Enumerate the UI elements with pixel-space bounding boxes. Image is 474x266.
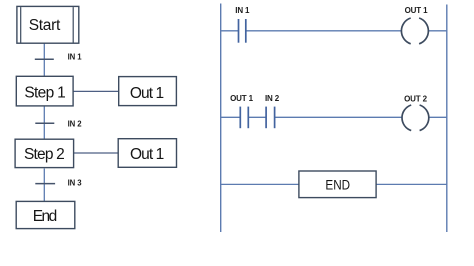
svg-text:IN 3: IN 3 [68,179,83,188]
svg-text:OUT 1: OUT 1 [405,6,429,15]
svg-text:End: End [33,208,58,225]
svg-text:Start: Start [29,17,61,34]
svg-text:IN 1: IN 1 [235,6,250,15]
svg-text:IN 2: IN 2 [68,120,83,129]
svg-text:Step 2: Step 2 [24,146,65,163]
svg-text:OUT 2: OUT 2 [404,94,428,103]
svg-text:END: END [325,176,350,192]
svg-text:Step 1: Step 1 [24,85,65,102]
svg-text:IN 2: IN 2 [265,94,280,103]
svg-text:Out 1: Out 1 [130,146,164,163]
svg-text:OUT 1: OUT 1 [230,94,254,103]
svg-text:Out 1: Out 1 [130,85,164,102]
svg-text:IN 1: IN 1 [68,53,83,62]
